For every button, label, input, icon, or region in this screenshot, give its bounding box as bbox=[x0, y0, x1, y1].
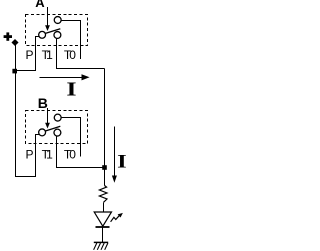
supply terminal node bbox=[11, 39, 18, 46]
pushbutton switch B dashed enclosure bbox=[26, 111, 88, 144]
wire : T1 of B down bbox=[56, 136, 58, 168]
wire : T1 of B across to output rail junction bbox=[56, 167, 105, 169]
svg-text:T1: T1 bbox=[42, 48, 54, 62]
switch A pole contact circle P bbox=[39, 31, 46, 38]
wire : P terminal of A up into box bbox=[36, 37, 39, 72]
LED diode triangle bbox=[94, 212, 111, 226]
node junction of T1-B with output rail bbox=[102, 165, 107, 170]
current annotation arrow I (horizontal) bbox=[40, 77, 84, 79]
svg-text:T1: T1 bbox=[42, 148, 54, 162]
svg-text:I: I bbox=[117, 151, 127, 172]
wire : +V rail down left side bbox=[15, 44, 17, 177]
wire : rail corner to P of B bbox=[15, 176, 36, 178]
svg-text:T0: T0 bbox=[64, 148, 76, 162]
LED cathode bar bbox=[96, 226, 110, 228]
actuator arrow for switch A bbox=[47, 7, 49, 26]
wire : T1 of A across to output rail bbox=[56, 68, 105, 70]
battery plus label bbox=[4, 32, 12, 40]
node junction to switch A pole bbox=[12, 69, 17, 74]
switch B pole contact circle P bbox=[39, 129, 46, 136]
resistor bbox=[99, 186, 107, 203]
wire : junction to P of A bbox=[16, 70, 36, 72]
wire : output rail down to resistor bbox=[104, 69, 106, 186]
switch A throw contact circle T1 bbox=[54, 32, 61, 39]
wire : LED to ground bbox=[102, 227, 104, 242]
svg-text:T0: T0 bbox=[64, 48, 76, 62]
actuator arrow for switch B bbox=[47, 108, 49, 123]
wire : T0 of B right and down bbox=[61, 118, 80, 157]
switch A throw contact circle T0 bbox=[54, 17, 61, 24]
ground bbox=[94, 241, 108, 243]
current annotation arrow I (vertical right) bbox=[114, 126, 116, 176]
svg-text:A: A bbox=[35, 0, 45, 10]
LED light emission arrow bbox=[111, 215, 120, 222]
switch B throw contact circle T1 bbox=[54, 129, 61, 136]
pushbutton switch A dashed enclosure bbox=[26, 15, 88, 46]
wire : T0 of A right and down bbox=[61, 21, 80, 60]
switch B throw contact circle T0 bbox=[54, 114, 61, 121]
switch A lever bbox=[45, 29, 60, 34]
switch B lever bbox=[45, 126, 60, 131]
svg-text:B: B bbox=[38, 95, 48, 111]
svg-text:I: I bbox=[66, 79, 76, 101]
wire : P terminal of B up into box bbox=[36, 135, 39, 178]
svg-text:P: P bbox=[26, 48, 34, 62]
wire : resistor to LED bbox=[103, 202, 105, 212]
wire : T1 of A down bbox=[56, 39, 58, 69]
svg-text:P: P bbox=[26, 148, 34, 162]
